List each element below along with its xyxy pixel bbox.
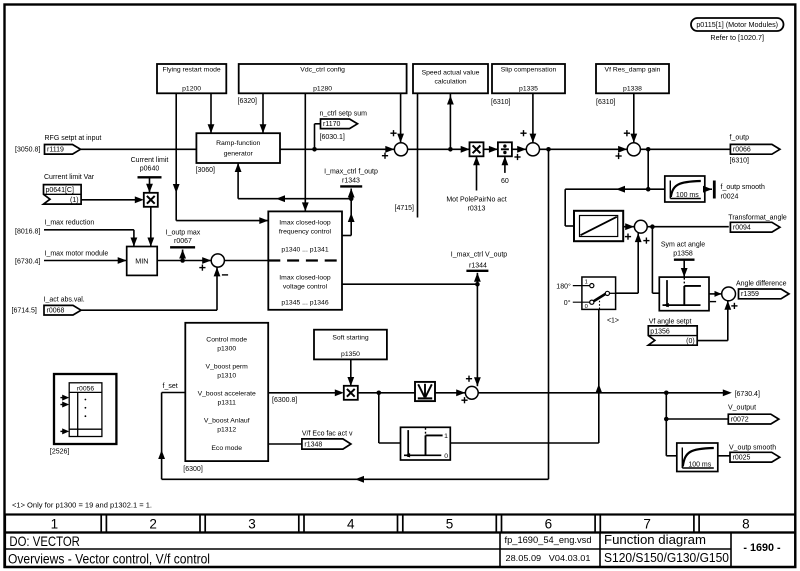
stub to [4715] [417, 93, 419, 217]
signal flag r0025 [730, 452, 780, 462]
svg-text:180°: 180° [556, 282, 571, 290]
svg-text:Eco mode: Eco mode [211, 445, 242, 452]
divider by 60 [498, 142, 512, 156]
box Vf Res_damp gain p1338 [596, 64, 669, 93]
wire switch output up to S4 [616, 292, 639, 294]
reference pill p0115[1] (Motor Modules) [691, 18, 784, 31]
svg-text:[6300]: [6300] [183, 466, 203, 473]
wire S7 to outputs [478, 392, 724, 394]
wire V branch down to r0072 [665, 393, 667, 419]
svg-text:Vf angle setpt: Vf angle setpt [649, 319, 692, 326]
svg-text:60: 60 [501, 178, 509, 185]
wire Vdc branch to S1 top [400, 93, 402, 142]
wire S3 to f_outp flag [640, 148, 730, 150]
wire smoothing to r0025 [718, 455, 730, 457]
svg-text:1: 1 [51, 517, 59, 532]
svg-text:7: 7 [643, 517, 651, 532]
svg-text:100 ms: 100 ms [688, 462, 711, 469]
svg-text:f_outp: f_outp [730, 134, 750, 141]
Vf characteristic box 1-0 [401, 427, 451, 460]
svg-text:Flying restart mode: Flying restart mode [163, 67, 221, 74]
wire S6 to Imax boxes [224, 260, 268, 262]
svg-text:r1344: r1344 [469, 262, 487, 269]
svg-text:[6300.8]: [6300.8] [272, 397, 297, 404]
svg-text:V/f Eco fac act v: V/f Eco fac act v [302, 430, 353, 437]
svg-text:MIN: MIN [135, 256, 148, 265]
wire V branch down to V smoothing [665, 419, 667, 456]
box Slip compensation p1335 [492, 64, 565, 93]
summing junction S5 angle difference [722, 287, 736, 301]
svg-text:p1311: p1311 [217, 399, 236, 406]
measurement point r1344 [476, 273, 478, 284]
wire f branch down [647, 149, 649, 189]
svg-text:p0640: p0640 [140, 166, 160, 173]
wire S2 to summing node S3 [540, 148, 628, 150]
svg-text:DO: VECTOR: DO: VECTOR [9, 533, 80, 549]
svg-text:Imax closed-loop: Imax closed-loop [279, 274, 331, 281]
svg-text:calculation: calculation [434, 79, 466, 86]
svg-text:r0025: r0025 [733, 455, 751, 462]
step box sym act [659, 277, 709, 311]
svg-text:Vf Res_damp gain: Vf Res_damp gain [605, 67, 661, 74]
arrows into status box [60, 397, 65, 399]
svg-text:1: 1 [444, 433, 448, 440]
input flag p1356 (0) [648, 326, 697, 345]
svg-text:f_outp smooth: f_outp smooth [721, 184, 765, 191]
svg-text:Soft starting: Soft starting [332, 334, 368, 341]
node junction r1343 [349, 196, 354, 201]
svg-text:I_outp max: I_outp max [166, 229, 201, 236]
connector r1170 n_ctrl setp sum [314, 124, 316, 150]
node junction Vf char branch [377, 391, 382, 396]
svg-text:r1170: r1170 [323, 121, 340, 128]
svg-text:r0066: r0066 [733, 147, 751, 154]
svg-text:p1338: p1338 [623, 86, 642, 93]
summing junction S6 [202, 257, 211, 264]
signal flag r0068 [44, 305, 81, 315]
title block column band [5, 515, 795, 533]
svg-text:RFG setpt at input: RFG setpt at input [45, 135, 102, 142]
svg-text:Imax closed-loop: Imax closed-loop [279, 219, 331, 226]
svg-text:p1335: p1335 [519, 86, 538, 93]
svg-text:p1358: p1358 [673, 250, 693, 257]
svg-text:[6714.5]: [6714.5] [12, 307, 37, 314]
parameter bar p0640 [138, 176, 162, 178]
status display box r0056 [54, 374, 116, 444]
wire p1356 to angle difference circle [697, 340, 728, 342]
svg-text:voltage control: voltage control [283, 283, 328, 290]
svg-text:r1343: r1343 [342, 177, 360, 184]
svg-text:frequency control: frequency control [279, 228, 332, 235]
wire step box to angle difference circle minus [709, 293, 721, 295]
wire r1344 node down to summing node S7 [476, 284, 478, 386]
box Speed actual value calculation [413, 64, 488, 93]
summing junction S4 angle [634, 220, 647, 233]
svg-text:<1>: <1> [607, 318, 619, 325]
svg-text:V_boost perm: V_boost perm [206, 363, 249, 370]
wire to f smoothing block [648, 188, 665, 190]
wire branch down to 1-0 box [378, 393, 380, 443]
svg-text:p1350: p1350 [341, 351, 360, 358]
wire f_set feedback loop [548, 149, 550, 479]
svg-text:Slip compensation: Slip compensation [501, 67, 557, 74]
svg-text:(1): (1) [70, 197, 79, 204]
svg-text:p1200: p1200 [182, 86, 201, 93]
wire S1 to multiplier [408, 148, 470, 150]
node junction transformat angle branch [650, 224, 655, 229]
svg-text:Mot PolePairNo act: Mot PolePairNo act [446, 197, 506, 204]
svg-text:Current limit Var: Current limit Var [44, 174, 95, 181]
svg-text:p1340 ... p1341: p1340 ... p1341 [281, 246, 328, 253]
svg-text:Speed actual value: Speed actual value [422, 70, 480, 77]
svg-text:V_outp smooth: V_outp smooth [729, 445, 776, 452]
node junction f_set feedback tap [546, 147, 551, 152]
smoothing block 100ms f_outp [665, 176, 705, 202]
svg-text:I_max_ctrl f_outp: I_max_ctrl f_outp [324, 169, 378, 176]
node junction r1170 tap [312, 147, 317, 152]
node junction to speed calc [448, 147, 453, 152]
svg-text:fp_1690_54_eng.vsd: fp_1690_54_eng.vsd [505, 535, 592, 545]
wire VfRes damp gain down to S3 [633, 93, 635, 142]
wire I_max reduction to MIN [44, 229, 134, 231]
node junction r1344 [475, 282, 480, 287]
wire multiplier to divider [484, 148, 498, 150]
svg-text:p1345 ... p1346: p1345 ... p1346 [281, 299, 328, 306]
svg-text:8: 8 [742, 517, 750, 532]
signal flag r1348 [302, 439, 351, 449]
svg-text:I_max_ctrl V_outp: I_max_ctrl V_outp [451, 251, 508, 258]
svg-text:3: 3 [248, 517, 256, 532]
svg-text:0: 0 [585, 304, 588, 310]
svg-text:Angle difference: Angle difference [736, 280, 787, 287]
svg-text:p0641[C]: p0641[C] [46, 187, 74, 194]
svg-text:S120/S150/G130/G150: S120/S150/G130/G150 [604, 550, 729, 565]
wire control mode to multiplier [268, 392, 337, 394]
svg-text:[3060]: [3060] [196, 167, 216, 174]
svg-text:p1312: p1312 [217, 427, 236, 434]
svg-text:r1348: r1348 [304, 442, 322, 449]
node junction at smoothing tee [646, 187, 651, 192]
svg-text:[3050.8]: [3050.8] [15, 147, 40, 154]
node junction f_outp branch [646, 147, 651, 152]
svg-text:Function diagram: Function diagram [604, 532, 706, 547]
box Imax closed-loop frequency control p1340 [268, 211, 342, 309]
limiter box [415, 382, 435, 401]
svg-text:- 1690 -: - 1690 - [743, 542, 781, 554]
switch box 180/0 [582, 277, 616, 309]
svg-text:[6310]: [6310] [491, 99, 511, 106]
svg-text:[4715]: [4715] [395, 205, 415, 212]
wire Eco mode to r1348 [268, 443, 302, 445]
svg-text:<1> Only for p1300 = 19 and p1: <1> Only for p1300 = 19 and p1302.1 = 1. [12, 500, 152, 509]
svg-text:[8016.8]: [8016.8] [15, 229, 40, 236]
svg-text:6: 6 [545, 517, 553, 532]
svg-text:I_max motor module: I_max motor module [45, 251, 109, 258]
svg-text:p1356: p1356 [650, 328, 670, 335]
svg-text:V_boost Anlauf: V_boost Anlauf [204, 418, 250, 425]
switch lever [593, 294, 606, 302]
wire p0641 to multiplier [81, 199, 136, 201]
wire Imax voltage output to r1344 and V sum [342, 283, 477, 285]
svg-text:[6730.4]: [6730.4] [15, 259, 40, 266]
wire r1119 to ramp-function generator [81, 148, 197, 150]
wire Imax frequency output up to r1343 and ramp [342, 235, 351, 237]
wire Flying restart to ramp generator top [210, 93, 212, 133]
node junction V output branch [664, 391, 669, 396]
svg-text:Overviews - Vector control, V/: Overviews - Vector control, V/f control [8, 552, 210, 567]
multiplier pole pair [461, 146, 470, 153]
svg-text:[2526]: [2526] [50, 448, 70, 455]
box MIN [127, 247, 158, 276]
wire Vdc_ctrl config down to summing node S1 [304, 93, 306, 211]
wire ramp limiter to summing node S4 [623, 226, 634, 228]
wire multiplier output to limiter [358, 392, 415, 394]
summing junction S1 [385, 146, 394, 153]
wire Vdc_ctrl config to ramp generator top [262, 93, 264, 133]
svg-text:0°: 0° [564, 299, 571, 307]
wire Flying restart second branch down-right into Imax box [175, 93, 177, 220]
box Ramp-function generator U-RFG [196, 133, 280, 163]
svg-text:I_act abs.val.: I_act abs.val. [44, 296, 85, 303]
svg-text:n_ctrl setp sum: n_ctrl setp sum [320, 110, 368, 117]
svg-text:p1280: p1280 [313, 86, 332, 93]
summing junction S2 slip [526, 143, 539, 156]
svg-text:(0): (0) [686, 338, 695, 345]
wire S4 to r0094 flag [647, 226, 729, 228]
title block rows [5, 533, 795, 568]
node junction r0067 tap [180, 258, 185, 263]
svg-text:r0313: r0313 [468, 205, 486, 212]
svg-text:100 ms: 100 ms [676, 192, 699, 199]
measurement point r0067 I_outp max [182, 250, 184, 261]
arrow to [6730.4] [723, 389, 732, 396]
svg-text:r1359: r1359 [741, 291, 759, 298]
wire transformat angle down to step box [651, 227, 653, 294]
svg-text:r0067: r0067 [174, 238, 192, 245]
multiplier current limit [144, 193, 158, 207]
svg-text:Refer to [1020.7]: Refer to [1020.7] [710, 33, 764, 42]
svg-text:I_max reduction: I_max reduction [45, 220, 95, 227]
svg-text:2: 2 [149, 517, 157, 532]
box Control mode p1300 V_boost [185, 323, 268, 461]
multiplier soft start [344, 386, 358, 400]
svg-text:Control mode: Control mode [206, 336, 247, 343]
svg-text:0: 0 [444, 453, 448, 460]
wire 1-0 box output to switch [451, 442, 599, 444]
wire MIN output to summing node S6 [157, 260, 211, 262]
svg-text:r0094: r0094 [733, 225, 751, 232]
svg-text:[6310]: [6310] [596, 99, 616, 106]
wire r0313 into multiplier [476, 156, 478, 190]
summing junction S3 resonance damping [618, 146, 627, 153]
svg-text:Current limit: Current limit [131, 157, 169, 164]
wire 60 into divider [504, 156, 506, 173]
svg-text:Sym act angle: Sym act angle [661, 241, 705, 248]
svg-text:[6320]: [6320] [238, 98, 258, 105]
wire ramp generator output to summing node S1 [280, 148, 394, 150]
box Vdc_ctrl config p1280 [239, 64, 407, 93]
svg-text:[6310]: [6310] [730, 158, 750, 165]
svg-text:V_output: V_output [728, 404, 756, 411]
svg-text:28.05.09 V04.03.01: 28.05.09 V04.03.01 [506, 553, 591, 563]
summing junction S7 voltage [465, 386, 478, 399]
signal flag r0072 [728, 414, 779, 424]
svg-text:5: 5 [446, 517, 454, 532]
signal flag r1359 [739, 289, 790, 299]
signal flag r0094 [730, 222, 780, 232]
svg-text:p1310: p1310 [217, 372, 236, 379]
svg-text:generator: generator [224, 151, 254, 158]
signal flag r0066 [730, 144, 780, 154]
svg-text:p0115[1] (Motor Modules): p0115[1] (Motor Modules) [696, 20, 778, 29]
parameter bar p1358 [674, 259, 695, 261]
wire left to integrator path [565, 188, 648, 190]
svg-text:r0068: r0068 [47, 307, 65, 314]
wire limiter to summing node S7 [435, 392, 465, 394]
svg-text:r1119: r1119 [47, 147, 64, 154]
wire up to Speed actual value calculation [449, 93, 451, 149]
smoothing block 100ms V_outp [677, 443, 718, 472]
box Soft starting p1350 [314, 330, 387, 360]
svg-text:4: 4 [347, 517, 355, 532]
wire multiplier down to MIN [150, 207, 152, 247]
svg-text:r0024: r0024 [721, 194, 739, 201]
svg-text:[6730.4]: [6730.4] [735, 391, 760, 398]
wire r0068 to S6 bottom [81, 309, 217, 311]
node junction r0072 tap [664, 417, 669, 422]
svg-text:V_boost accelerate: V_boost accelerate [198, 391, 256, 398]
ramp limiter box with diagonal [574, 211, 623, 241]
wire smoothing to r0024 bar [705, 188, 712, 190]
svg-text:p1300: p1300 [217, 345, 236, 352]
input flag p0641[C] (1) [44, 185, 82, 205]
wire I_max motor module to MIN [44, 260, 127, 262]
wire slip compensation down to S2 [532, 93, 534, 142]
measurement point r1343 [348, 189, 355, 198]
wire soft starting down to multiplier [350, 359, 352, 386]
svg-text:Ramp-function: Ramp-function [216, 140, 260, 147]
svg-text:f_set: f_set [163, 383, 178, 390]
svg-text:Transformat_angle: Transformat_angle [728, 214, 787, 221]
wire divider to summing node S2 [512, 148, 526, 150]
svg-text:r0072: r0072 [731, 416, 749, 423]
svg-text:1: 1 [585, 280, 588, 286]
box Flying restart mode p1200 [157, 64, 226, 93]
svg-text:r0056: r0056 [77, 385, 95, 392]
wire feedback into ramp generator bottom [238, 198, 351, 200]
signal flag r1119 [45, 145, 81, 155]
svg-text:Vdc_ctrl config: Vdc_ctrl config [300, 67, 345, 74]
svg-text:[6030.1]: [6030.1] [320, 134, 345, 141]
